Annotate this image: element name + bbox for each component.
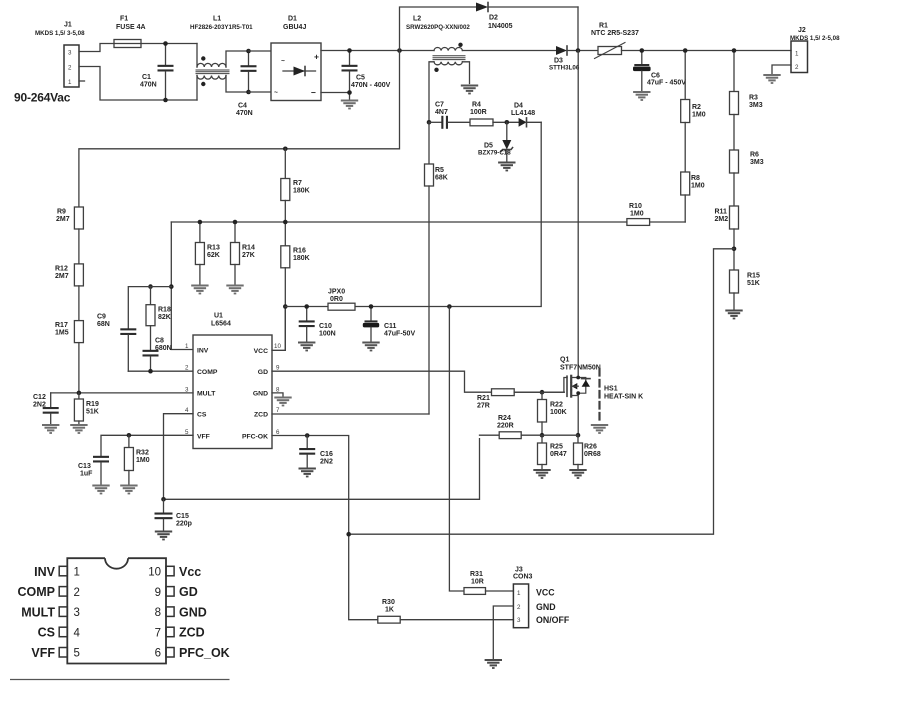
svg-text:3: 3	[74, 607, 80, 619]
svg-text:JPX0: JPX0	[328, 289, 345, 296]
resistor R32	[124, 435, 149, 484]
svg-text:2N2: 2N2	[33, 402, 46, 409]
svg-text:L1: L1	[213, 16, 221, 23]
svg-text:2: 2	[74, 587, 80, 599]
node R4/D4/D5	[505, 120, 510, 125]
wire ZCD pin7	[272, 413, 429, 415]
svg-text:7: 7	[276, 407, 280, 414]
svg-text:R17: R17	[55, 322, 68, 329]
INV node vertical to pin1	[171, 222, 193, 350]
separator line	[10, 679, 230, 681]
svg-text:2: 2	[185, 365, 189, 372]
resistor R4	[470, 102, 519, 126]
svg-text:2: 2	[517, 604, 521, 611]
svg-text:J2: J2	[798, 27, 806, 34]
resistor R2	[681, 51, 706, 173]
svg-text:R13: R13	[207, 245, 220, 252]
svg-text:27K: 27K	[242, 252, 255, 259]
capacitor C15	[155, 499, 192, 530]
wire D1+ to bus	[321, 50, 434, 52]
electrolytic capacitor C11	[363, 307, 416, 342]
svg-text:COMP: COMP	[197, 369, 218, 376]
resistor R7	[281, 149, 310, 246]
svg-text:1M0: 1M0	[630, 211, 644, 218]
svg-text:1M5: 1M5	[55, 330, 69, 337]
resistor R12	[55, 264, 83, 321]
node bus split	[397, 48, 402, 53]
svg-text:MKDS 1,5/ 3-5,08: MKDS 1,5/ 3-5,08	[35, 30, 85, 37]
resistor R17	[55, 321, 83, 393]
wire GD pin9	[272, 371, 492, 392]
jumper JPX0	[328, 289, 355, 311]
capacitor C1	[140, 44, 174, 101]
svg-text:FUSE 4A: FUSE 4A	[116, 24, 146, 31]
wire compensation top	[128, 287, 171, 329]
svg-text:GND: GND	[253, 391, 268, 398]
svg-text:1: 1	[68, 79, 72, 86]
svg-text:470N: 470N	[140, 82, 157, 89]
connector J1	[35, 22, 85, 88]
svg-text:VCC: VCC	[536, 588, 555, 598]
svg-text:COMP: COMP	[18, 585, 56, 599]
transistor Q1	[514, 51, 601, 436]
svg-text:220R: 220R	[497, 423, 514, 430]
svg-text:C11: C11	[384, 323, 397, 330]
svg-text:R2: R2	[692, 104, 701, 111]
connector J3	[513, 567, 570, 628]
svg-text:C15: C15	[176, 513, 189, 520]
svg-text:100N: 100N	[319, 331, 336, 338]
wire CS pin4 down and right to R24	[164, 414, 480, 500]
svg-text:PFC-OK: PFC-OK	[242, 433, 268, 440]
resistor R22	[538, 392, 567, 435]
svg-text:68N: 68N	[97, 321, 110, 328]
svg-text:R30: R30	[382, 599, 395, 606]
svg-text:1N4005: 1N4005	[488, 23, 513, 30]
svg-text:~: ~	[274, 90, 278, 97]
svg-text:R11: R11	[715, 209, 728, 216]
svg-text:J1: J1	[64, 22, 72, 29]
svg-text:CS: CS	[197, 412, 207, 419]
capacitor C8	[143, 338, 172, 372]
svg-text:+: +	[314, 52, 319, 62]
wire rail left part	[285, 306, 328, 308]
svg-text:R19: R19	[86, 401, 99, 408]
svg-text:R5: R5	[435, 167, 444, 174]
svg-text:4N7: 4N7	[435, 109, 448, 116]
svg-text:D3: D3	[554, 58, 563, 65]
svg-text:2M2: 2M2	[715, 216, 729, 223]
svg-text:470N - 400V: 470N - 400V	[351, 82, 391, 89]
svg-text:C7: C7	[435, 102, 444, 109]
svg-text:R25: R25	[550, 444, 563, 451]
resistor R19	[74, 393, 99, 424]
node R14 on INV line	[233, 220, 238, 225]
svg-text:62K: 62K	[207, 252, 220, 259]
wire D2 down to D3 node	[577, 7, 579, 51]
node: C1 junctions	[163, 41, 168, 46]
pin 5	[59, 648, 67, 658]
svg-text:1: 1	[74, 567, 80, 579]
svg-text:C9: C9	[97, 314, 106, 321]
node R31 column on rail	[447, 304, 452, 309]
svg-text:GD: GD	[258, 369, 268, 376]
resistor R25	[538, 435, 567, 468]
wire PFC-OK pin6	[272, 436, 378, 620]
svg-text:R22: R22	[550, 402, 563, 409]
node R3 on bus	[732, 48, 737, 53]
wire fuse to L1 top	[141, 43, 197, 45]
resistor R16	[281, 246, 310, 350]
capacitor C7	[429, 102, 470, 129]
node C6 on bus	[640, 48, 645, 53]
svg-text:C10: C10	[319, 323, 332, 330]
svg-text:ON/OFF: ON/OFF	[536, 615, 570, 625]
wires C4 to D1	[249, 51, 272, 92]
svg-text:47uF-50V: 47uF-50V	[384, 331, 415, 338]
pin 7	[166, 627, 174, 637]
svg-text:R6: R6	[750, 152, 759, 159]
node Vcc rail left	[283, 304, 288, 309]
svg-text:LL4148: LL4148	[511, 110, 535, 117]
node R21/R22 gate	[540, 390, 545, 395]
svg-text:10: 10	[148, 567, 161, 579]
electrolytic capacitor C6	[633, 51, 686, 91]
svg-text:0R47: 0R47	[550, 451, 567, 458]
resistor R11	[715, 206, 739, 270]
svg-text:C12: C12	[33, 394, 46, 401]
svg-text:2: 2	[795, 64, 799, 71]
svg-text:100R: 100R	[470, 109, 487, 116]
pin 4	[59, 627, 67, 637]
svg-text:1uF: 1uF	[80, 471, 93, 478]
diode D2	[476, 3, 578, 31]
node R17/R19 on MULT line	[77, 391, 82, 396]
wire VFF pin5	[101, 435, 193, 456]
svg-text:180K: 180K	[293, 255, 310, 262]
wire J1 pin2 to bottom rail	[79, 67, 197, 101]
node R18 top	[148, 284, 153, 289]
node ON/OFF junction	[346, 532, 351, 537]
wire bus up to D2 branch	[400, 7, 477, 51]
capacitor C5	[342, 51, 391, 100]
svg-text:MULT: MULT	[197, 391, 216, 398]
capacitor C12	[33, 393, 59, 424]
svg-text:180K: 180K	[293, 188, 310, 195]
svg-text:4: 4	[74, 627, 81, 639]
capacitor C9	[97, 314, 136, 372]
svg-text:R10: R10	[629, 203, 642, 210]
svg-text:GBU4J: GBU4J	[283, 24, 306, 31]
svg-text:Q1: Q1	[560, 357, 569, 364]
resistor R9	[56, 207, 83, 264]
pin 8	[166, 607, 174, 617]
svg-text:10R: 10R	[471, 579, 484, 586]
resistor R3	[730, 51, 763, 151]
resistor R18	[146, 287, 171, 350]
ground at GND pin8	[272, 393, 283, 396]
svg-text:GND: GND	[179, 605, 207, 619]
connector J2	[790, 27, 840, 73]
svg-text:F1: F1	[120, 16, 128, 23]
node R22/R25/R24	[540, 433, 545, 438]
svg-text:R9: R9	[57, 209, 66, 216]
svg-text:1M0: 1M0	[136, 457, 150, 464]
svg-text:−: −	[311, 88, 316, 98]
op-amp U1	[185, 313, 281, 449]
svg-text:5: 5	[74, 648, 80, 660]
svg-text:3: 3	[517, 617, 521, 624]
svg-text:L2: L2	[413, 16, 421, 23]
wire D1- to C5	[321, 92, 350, 94]
svg-text:9: 9	[155, 587, 161, 599]
node L2 secondary to C7	[427, 120, 432, 125]
node R13 on INV line	[198, 220, 203, 225]
svg-text:STTH3L06: STTH3L06	[549, 65, 580, 72]
svg-text:51K: 51K	[86, 409, 99, 416]
node C8 on COMP line	[148, 369, 153, 374]
svg-text:8: 8	[155, 607, 161, 619]
svg-text:90-264Vac: 90-264Vac	[14, 91, 71, 105]
resistor R14	[231, 222, 255, 284]
svg-text:C4: C4	[238, 103, 247, 110]
svg-text:0R0: 0R0	[330, 296, 343, 303]
svg-text:3: 3	[68, 50, 72, 57]
svg-text:6: 6	[155, 648, 161, 660]
capacitor C16	[299, 436, 333, 468]
svg-text:C8: C8	[155, 338, 164, 345]
wire J2 pin2 to ground	[772, 65, 791, 74]
node source/R26	[576, 433, 581, 438]
svg-text:3M3: 3M3	[750, 159, 764, 166]
capacitor C10	[299, 307, 336, 342]
svg-text:BZX79-C18: BZX79-C18	[478, 150, 511, 157]
svg-text:68K: 68K	[435, 175, 448, 182]
heat-sink HS1	[600, 369, 644, 421]
svg-text:MKDS 1,5/ 2-5,08: MKDS 1,5/ 2-5,08	[790, 35, 840, 42]
svg-text:NTC 2R5-S237: NTC 2R5-S237	[591, 30, 639, 37]
svg-text:D5: D5	[484, 143, 493, 150]
svg-text:470N: 470N	[236, 110, 253, 117]
svg-text:HS1: HS1	[604, 386, 618, 393]
resistor R21	[477, 389, 564, 410]
svg-text:R21: R21	[477, 395, 490, 402]
wire J1 pin1 stub	[79, 80, 85, 82]
svg-text:D1: D1	[288, 16, 297, 23]
node R2 on bus	[683, 48, 688, 53]
svg-text:680N: 680N	[155, 345, 172, 352]
svg-text:0R68: 0R68	[584, 451, 601, 458]
wire J3 pin2 to ground	[493, 606, 513, 659]
svg-text:Vcc: Vcc	[179, 565, 201, 579]
wire J1 pin3 to fuse	[79, 44, 114, 52]
svg-text:MULT: MULT	[21, 605, 55, 619]
svg-text:1M0: 1M0	[691, 183, 705, 190]
node C11 on rail	[369, 304, 374, 309]
svg-text:2N2: 2N2	[320, 459, 333, 466]
resistor R10	[171, 203, 685, 225]
svg-text:47uF - 450V: 47uF - 450V	[647, 80, 686, 87]
pin 1	[59, 566, 67, 576]
common-mode choke L1	[190, 16, 253, 101]
node R11/R15 junction	[732, 247, 737, 252]
svg-text:R16: R16	[293, 248, 306, 255]
diode D3	[549, 46, 598, 72]
transformer L2	[406, 16, 556, 123]
resistor R15	[730, 270, 760, 309]
zener diode D5	[478, 122, 513, 161]
svg-text:R32: R32	[136, 450, 149, 457]
node C10 on rail	[304, 304, 309, 309]
svg-text:2M7: 2M7	[55, 273, 69, 280]
resistor R8	[681, 172, 705, 222]
NTC resistor R1	[591, 23, 639, 59]
svg-text:R26: R26	[584, 444, 597, 451]
svg-text:INV: INV	[197, 347, 209, 354]
svg-text:C6: C6	[651, 73, 660, 80]
svg-text:D4: D4	[514, 103, 523, 110]
wire PFC_OK node loop	[349, 249, 734, 534]
svg-text:1M0: 1M0	[692, 112, 706, 119]
svg-text:GD: GD	[179, 585, 198, 599]
svg-text:ZCD: ZCD	[179, 626, 205, 640]
capacitor C4	[236, 51, 257, 117]
svg-text:CS: CS	[38, 626, 55, 640]
wire MULT pin3	[51, 392, 193, 394]
svg-text:GND: GND	[536, 602, 556, 612]
wire VCC pin10 up to rail	[272, 307, 285, 350]
svg-text:R31: R31	[470, 571, 483, 578]
resistor R13	[195, 222, 220, 284]
svg-text:STF7NM50N: STF7NM50N	[560, 365, 601, 372]
svg-text:VFF: VFF	[31, 646, 55, 660]
ground at C6	[633, 91, 650, 101]
svg-text:1: 1	[185, 343, 189, 350]
resistor R6	[730, 150, 764, 206]
svg-text:2: 2	[68, 65, 72, 72]
svg-text:R8: R8	[691, 175, 700, 182]
svg-text:82K: 82K	[158, 314, 171, 321]
svg-text:C13: C13	[78, 463, 91, 470]
svg-text:1K: 1K	[385, 607, 394, 614]
diode D4	[511, 103, 541, 127]
svg-text:R18: R18	[158, 307, 171, 314]
svg-text:51K: 51K	[747, 280, 760, 287]
svg-text:R12: R12	[55, 266, 68, 273]
svg-text:ZCD: ZCD	[254, 412, 268, 419]
svg-text:R15: R15	[747, 273, 760, 280]
svg-text:HEAT-SIN K: HEAT-SIN K	[604, 394, 643, 401]
resistor R24	[480, 415, 579, 439]
svg-text:7: 7	[155, 627, 161, 639]
svg-text:100K: 100K	[550, 409, 567, 416]
op-amp package outline	[67, 558, 166, 663]
node C16 on PFC-OK line	[305, 433, 310, 438]
wire COMP pin2	[128, 370, 193, 372]
pin 9	[166, 587, 174, 597]
node R7/R16 on INV line	[283, 220, 288, 225]
ground at L2 secondary	[461, 85, 478, 95]
resistor R5	[425, 122, 448, 414]
svg-text:2M7: 2M7	[56, 216, 70, 223]
svg-text:C16: C16	[320, 451, 333, 458]
ground at R15	[725, 310, 742, 320]
svg-text:INV: INV	[34, 565, 56, 579]
svg-text:3M3: 3M3	[749, 102, 763, 109]
node INV/compensation	[169, 284, 174, 289]
ground at C5	[341, 100, 358, 110]
pin 3	[59, 607, 67, 617]
fuse F1	[114, 16, 146, 48]
svg-text:VCC: VCC	[254, 348, 268, 355]
svg-text:R1: R1	[599, 23, 608, 30]
svg-text:D2: D2	[489, 15, 498, 22]
svg-text:R4: R4	[472, 102, 481, 109]
pin 6	[166, 648, 174, 658]
svg-text:VFF: VFF	[197, 433, 210, 440]
svg-text:J3: J3	[515, 567, 523, 574]
resistor R26	[574, 435, 601, 468]
svg-text:U1: U1	[214, 313, 223, 320]
node C15 on CS line	[161, 497, 166, 502]
wire R1 to J2	[622, 50, 792, 52]
svg-text:CON3: CON3	[513, 574, 533, 581]
pin 2	[59, 587, 67, 597]
ground at J2	[763, 74, 780, 84]
node R7 top on divider line	[283, 147, 288, 152]
svg-text:R14: R14	[242, 245, 255, 252]
wire bus down to divider line	[79, 51, 400, 208]
svg-text:PFC_OK: PFC_OK	[179, 646, 230, 660]
svg-text:L6564: L6564	[211, 321, 231, 328]
svg-text:SRW2620PQ-XXN/002: SRW2620PQ-XXN/002	[406, 24, 470, 31]
resistor R30	[378, 599, 514, 623]
svg-text:R24: R24	[498, 415, 511, 422]
svg-text:220p: 220p	[176, 521, 192, 528]
svg-text:R3: R3	[749, 95, 758, 102]
svg-text:1: 1	[517, 590, 521, 597]
wire D4 down to Vcc rail	[355, 122, 541, 306]
pin 10	[166, 566, 174, 576]
resistor R31	[449, 307, 513, 595]
node R32 on VFF line	[127, 433, 132, 438]
bridge rectifier D1	[271, 16, 321, 101]
svg-text:R7: R7	[293, 180, 302, 187]
node D3/D2/drain junction	[576, 48, 581, 53]
svg-text:~: ~	[281, 58, 285, 65]
svg-text:27R: 27R	[477, 403, 490, 410]
svg-text:HF2826-203Y1R5-T01: HF2826-203Y1R5-T01	[190, 24, 253, 31]
ground at D5	[498, 162, 515, 172]
svg-text:10: 10	[274, 343, 281, 350]
svg-text:C1: C1	[142, 74, 151, 81]
svg-text:1: 1	[795, 51, 799, 58]
svg-text:C5: C5	[356, 75, 365, 82]
capacitor C13	[78, 456, 109, 484]
